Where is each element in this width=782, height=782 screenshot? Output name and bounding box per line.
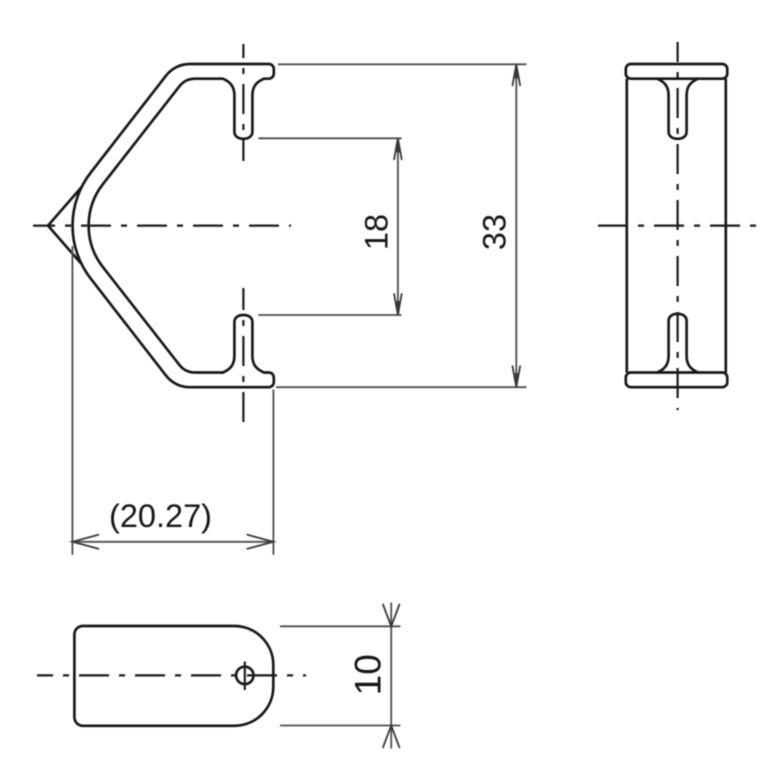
dimension (20.27): dimension line xyxy=(72,541,273,543)
bottom view: pin hole circle xyxy=(236,667,253,684)
dimension 33: bottom arrowhead xyxy=(513,366,521,387)
bottom view horizontal center line xyxy=(37,674,306,676)
side view: bottom pin xyxy=(657,314,698,373)
dimension 33: bottom extension line xyxy=(276,386,527,388)
bottom view: pin vertical tick xyxy=(244,662,246,691)
dimension 33: top arrowhead xyxy=(513,64,521,85)
dimension 10: bottom extension line xyxy=(280,725,401,727)
side view: body right edge xyxy=(724,79,727,373)
side view: body left edge xyxy=(625,79,628,373)
side view: top flange strip xyxy=(626,64,728,79)
bottom view: plate outline xyxy=(74,626,273,726)
dimension 33: top extension line xyxy=(278,63,527,65)
front view: bent clip outline xyxy=(73,64,274,387)
dimension 18: top extension line xyxy=(258,137,401,139)
front view: pointed tip triangle xyxy=(48,188,81,264)
svg-text:(20.27): (20.27) xyxy=(109,498,212,534)
dimension 10: dimension line xyxy=(390,603,392,749)
dimension 18: top arrowhead xyxy=(394,138,402,159)
dimension 18: bottom extension line xyxy=(258,314,401,316)
svg-text:33: 33 xyxy=(477,214,513,250)
dimension (20.27): left arrowhead xyxy=(72,535,98,549)
side view horizontal center line xyxy=(598,225,757,227)
front top pin center line xyxy=(242,44,244,161)
dimension 18: dimension line xyxy=(397,138,399,315)
front view horizontal center line xyxy=(33,225,291,227)
dimension 10: top extension line xyxy=(280,625,401,627)
side view vertical center line xyxy=(676,42,678,410)
dimension (20.27): right arrowhead xyxy=(247,535,273,549)
dimension 10: top arrowhead (outside, pointing down) xyxy=(383,605,399,627)
side view: bottom flange strip xyxy=(626,373,728,388)
dimension 10: bottom arrowhead (outside, pointing up) xyxy=(383,726,399,748)
dimension (20.27): left extension line xyxy=(71,246,73,555)
front bottom pin center line xyxy=(242,288,244,427)
svg-text:10: 10 xyxy=(347,654,388,695)
dimension (20.27): right extension line xyxy=(272,390,274,555)
dimension 33: dimension line xyxy=(515,64,517,387)
dimension 18: bottom arrowhead xyxy=(394,294,402,315)
side view: top pin xyxy=(657,79,698,139)
svg-text:18: 18 xyxy=(359,214,395,250)
